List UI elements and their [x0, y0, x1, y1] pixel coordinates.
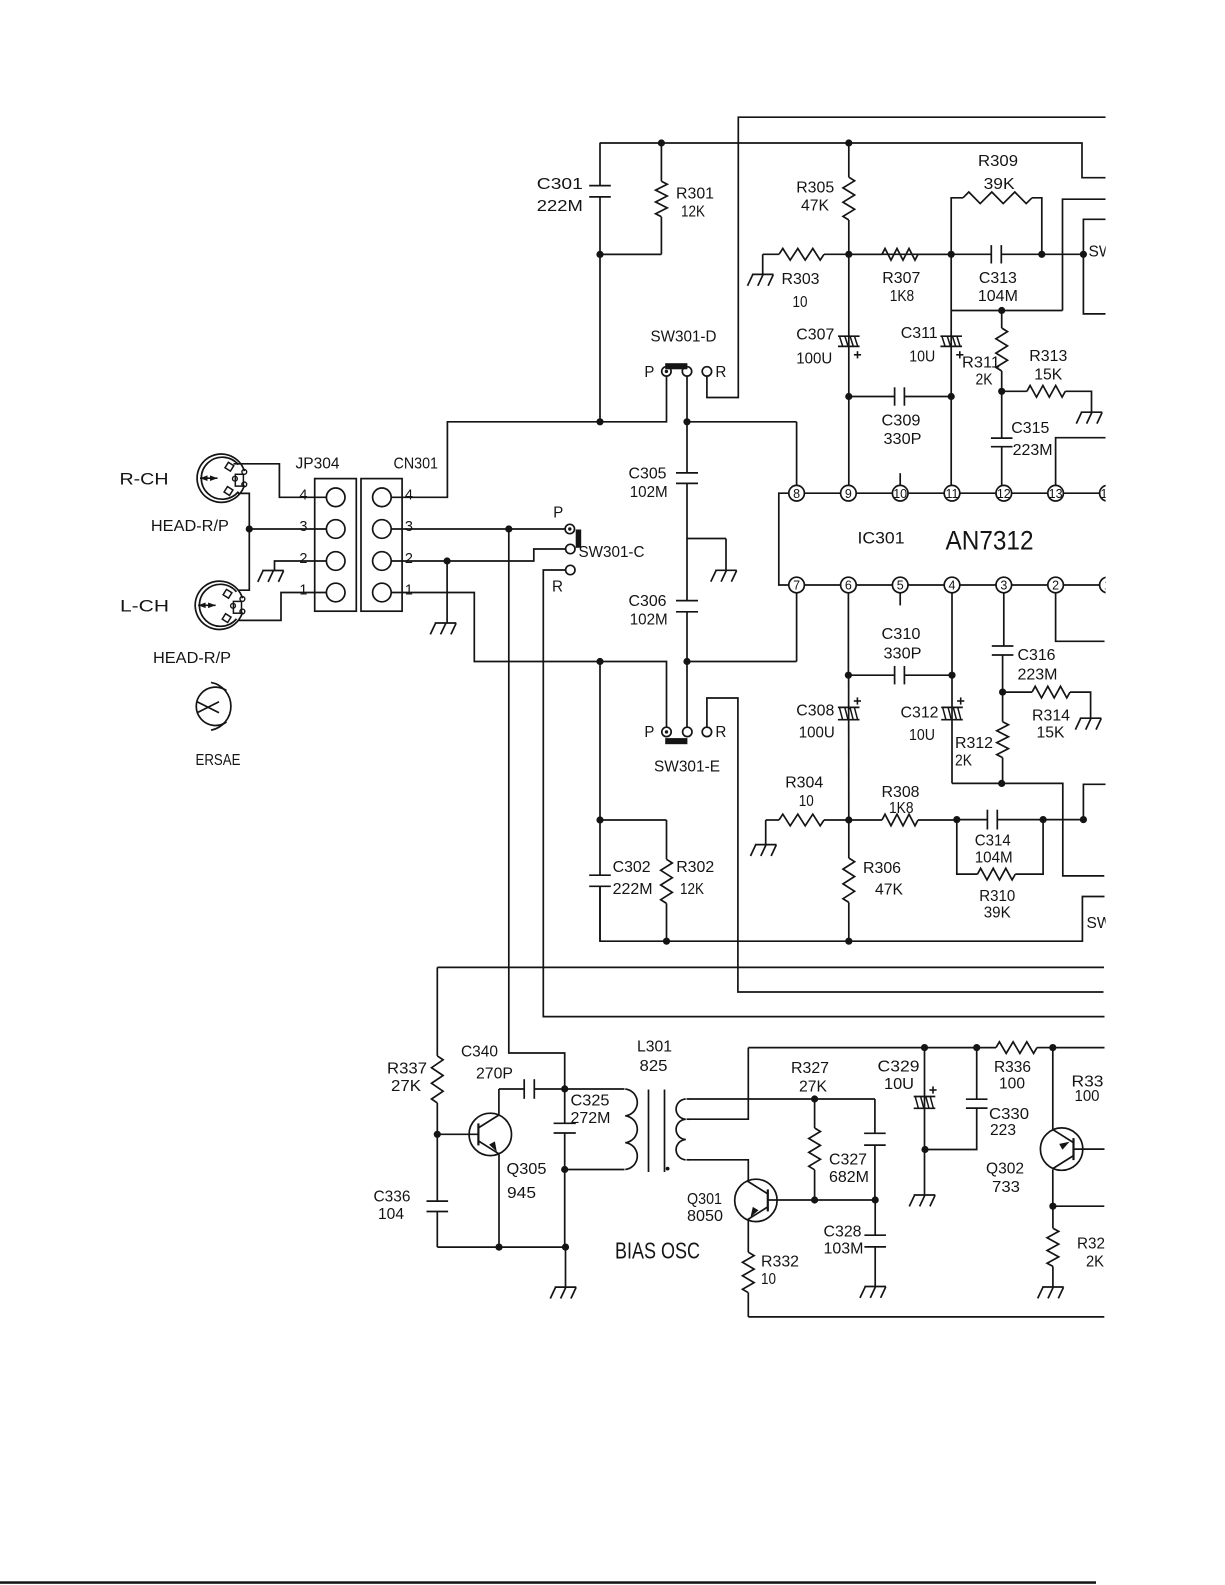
svg-text:P: P [553, 505, 563, 522]
op-amp U1 IC301 AN7312 pin rows [779, 473, 1115, 605]
tape head R-CH HEAD-R/P [197, 454, 247, 502]
svg-text:C316: C316 [1018, 647, 1056, 664]
svg-text:C315: C315 [1011, 420, 1049, 437]
junction dot rail-C325 [562, 1244, 569, 1251]
label R327 [791, 1060, 829, 1096]
resistor R313 [1002, 386, 1092, 413]
svg-text:104: 104 [378, 1206, 404, 1223]
svg-text:15K: 15K [1034, 367, 1062, 384]
svg-text:JP304: JP304 [296, 456, 340, 473]
junction dot C314 left [953, 816, 960, 823]
wire R311 top node [951, 310, 1062, 312]
svg-text:222M: 222M [613, 881, 653, 898]
wire right stub y199 [1063, 199, 1106, 310]
label Q305 [507, 1161, 547, 1202]
label SW301-D R [715, 364, 726, 381]
capacitor C325 [554, 1089, 576, 1247]
label R313 [1029, 348, 1067, 384]
ground JP304-2 [258, 571, 284, 582]
junction dot SW riser [1080, 816, 1087, 823]
wire node to SW [1042, 253, 1084, 255]
label Q302 [986, 1161, 1024, 1197]
svg-text:HEAD-R/P: HEAD-R/P [151, 518, 229, 535]
label SW301-C R [552, 579, 563, 596]
ground bias rail [550, 1287, 576, 1298]
svg-text:1: 1 [405, 583, 413, 599]
label C302 [613, 859, 653, 898]
ground near R313 [1076, 412, 1102, 423]
wire Q305 base [437, 1133, 478, 1135]
label C311 [901, 325, 938, 366]
junction dot wire421 C301 branch [596, 418, 603, 425]
capacitor C310 [848, 666, 952, 684]
svg-text:15K: 15K [1037, 725, 1065, 742]
svg-text:C328: C328 [824, 1224, 862, 1241]
svg-text:223: 223 [990, 1122, 1016, 1139]
svg-text:C313: C313 [979, 270, 1017, 287]
junction dot R302 bottom [663, 938, 670, 945]
label R332 [761, 1254, 799, 1289]
capacitor C311 [940, 254, 963, 396]
label R311 [962, 355, 1000, 389]
label SW301-E [654, 759, 720, 776]
junction dot R306 bottom [845, 938, 852, 945]
resistor R303 [763, 249, 849, 261]
resistor R306 [843, 820, 855, 941]
junction dot C327 bottom [872, 1196, 879, 1203]
svg-text:R: R [552, 579, 563, 596]
junction dot R307 right [948, 251, 955, 258]
svg-text:11: 11 [946, 487, 959, 501]
wire lower bus y941 [600, 886, 1105, 941]
svg-text:BIAS OSC: BIAS OSC [615, 1238, 700, 1264]
svg-text:100U: 100U [799, 725, 835, 742]
svg-text:223M: 223M [1018, 667, 1058, 684]
ground near R304 [751, 820, 777, 856]
label R314 [1032, 708, 1070, 742]
svg-text:2K: 2K [1086, 1254, 1104, 1271]
svg-text:5: 5 [897, 579, 904, 593]
junction dot C301 bottom [596, 251, 603, 258]
svg-text:C301: C301 [537, 176, 583, 193]
svg-text:C311: C311 [901, 325, 938, 342]
junction dot R301 top [658, 139, 665, 146]
svg-text:12: 12 [997, 487, 1011, 501]
switch SW301-D [662, 363, 712, 376]
capacitor C328 [864, 1200, 886, 1287]
svg-text:104M: 104M [975, 850, 1013, 867]
label SW301-C P [553, 505, 563, 522]
svg-text:R312: R312 [955, 735, 993, 752]
svg-text:682M: 682M [829, 1169, 869, 1186]
svg-text:4: 4 [405, 487, 413, 503]
svg-text:R336: R336 [994, 1059, 1031, 1076]
svg-text:R305: R305 [796, 180, 834, 197]
capacitor C306 [676, 539, 698, 728]
label C306 [629, 593, 668, 629]
wire R-CH bottom tab down to L-CH top tab [238, 493, 249, 590]
label C310 [882, 626, 922, 663]
wire bias supply y1047 [748, 1047, 996, 1049]
resistor R304 [766, 814, 849, 826]
wire JP304-2 to ground [275, 561, 327, 570]
capacitor C330 [925, 1048, 988, 1150]
ground CN301-2 [430, 623, 456, 634]
wire bias emitter rail [437, 1155, 565, 1248]
svg-text:10U: 10U [909, 727, 935, 744]
wire Q302 top [1052, 1048, 1054, 1130]
label L-CH [120, 598, 169, 616]
wire right stub y219-y314 [1083, 219, 1105, 314]
svg-text:47K: 47K [801, 198, 829, 215]
label BIAS OSC [615, 1238, 700, 1264]
svg-text:223M: 223M [1013, 442, 1053, 459]
switch SW301-C [565, 524, 581, 574]
capacitor C307 [838, 254, 861, 396]
resistor R336 [996, 1042, 1053, 1054]
svg-text:330P: 330P [884, 431, 922, 448]
wire Q305 collector up [499, 1089, 524, 1115]
capacitor C313 [951, 245, 1042, 263]
wire C301-R301 bottom node [600, 254, 661, 421]
svg-text:SW301-E: SW301-E [654, 759, 720, 776]
wire SW301-C R branch long vertical [543, 570, 1104, 1017]
svg-text:10: 10 [893, 487, 907, 501]
connector JP304 pins [326, 488, 345, 602]
svg-text:P: P [644, 364, 654, 381]
junction dot C309 right [948, 393, 955, 400]
junction dot CN301-2 ground branch [444, 557, 451, 564]
resistor R305 [843, 143, 855, 254]
svg-text:4: 4 [949, 579, 956, 593]
junction dot R312 bottom [998, 780, 1005, 787]
junction dot R305 top [845, 139, 852, 146]
label ERSAE [196, 752, 241, 769]
svg-text:Q301: Q301 [687, 1191, 722, 1208]
capacitor C340 [524, 1079, 565, 1099]
svg-text:13: 13 [1049, 487, 1063, 501]
label C308 [796, 703, 834, 742]
svg-text:2K: 2K [976, 372, 993, 389]
svg-text:3: 3 [1000, 579, 1007, 593]
label C301 [537, 176, 583, 215]
label R32x [1077, 1236, 1105, 1271]
svg-text:R301: R301 [676, 186, 714, 203]
label SW301-D P [644, 364, 654, 381]
svg-text:C336: C336 [374, 1189, 411, 1206]
junction dot wire661 C302 branch [596, 658, 603, 665]
svg-text:100: 100 [999, 1076, 1025, 1093]
transistor Q305 [469, 1113, 511, 1155]
ground C329 [909, 1195, 935, 1206]
svg-text:8: 8 [793, 487, 800, 501]
label C315 [1011, 420, 1052, 459]
label R308 [882, 784, 920, 817]
svg-text:272M: 272M [571, 1110, 611, 1127]
svg-text:R: R [715, 364, 726, 381]
switch SW301-E [662, 727, 712, 744]
svg-text:C309: C309 [882, 413, 921, 430]
svg-text:R327: R327 [791, 1060, 829, 1077]
wire pin13 to right edge [1056, 438, 1106, 486]
svg-text:102M: 102M [630, 612, 668, 629]
junction dot C302 top [596, 816, 603, 823]
resistor R312 [997, 692, 1009, 783]
resistor R332 [743, 1252, 755, 1317]
capacitor C316 [992, 593, 1014, 692]
svg-text:10: 10 [799, 793, 814, 810]
svg-text:945: 945 [507, 1185, 536, 1202]
label HEAD-R/P upper [151, 518, 229, 535]
junction dot SW301-D mid [683, 418, 690, 425]
junction dot head common [246, 525, 253, 532]
svg-text:R337: R337 [387, 1061, 427, 1078]
label C307 [796, 327, 834, 368]
wire pin2 down right [1056, 593, 1105, 642]
capacitor C305 [676, 422, 698, 539]
wire SW301-E mid to pin7 [687, 593, 797, 662]
svg-text:R303: R303 [782, 271, 820, 288]
label SW301-D [651, 329, 717, 346]
svg-text:6: 6 [845, 579, 852, 593]
svg-text:10: 10 [793, 294, 808, 311]
label C313 [978, 270, 1018, 305]
label JP304 [296, 456, 340, 473]
label C305 [629, 466, 668, 502]
junction dot C329 top [921, 1044, 928, 1051]
junction dot CN301-3 branch [505, 525, 512, 532]
wire R-CH top tab to JP304-4 [234, 464, 327, 498]
label R33x [1072, 1074, 1104, 1106]
wire R336 to right edge [1053, 1047, 1105, 1049]
svg-text:R309: R309 [978, 153, 1018, 170]
svg-text:103M: 103M [824, 1241, 864, 1258]
wire top-right rail to SW301-D R terminal [707, 117, 1106, 397]
svg-text:SW301-C: SW301-C [579, 544, 645, 561]
wire L301 top tap to C327 [689, 1099, 875, 1133]
wire bias bottom rail [748, 1316, 1104, 1318]
svg-text:2K: 2K [955, 753, 972, 770]
junction dot R327 top [811, 1095, 818, 1102]
labels CN301 pin numbers 4 3 2 1 [405, 487, 413, 598]
transistor Q301 [735, 1179, 777, 1221]
wire CN301-2 to SW301-C mid [391, 549, 565, 561]
capacitor C314 [957, 810, 1043, 830]
label C327 [829, 1152, 869, 1187]
wire head common to JP304-3 [249, 528, 326, 530]
ground mid C305-C306 [711, 570, 737, 581]
label R303 [782, 271, 820, 311]
label C316 [1018, 647, 1058, 684]
svg-text:7: 7 [793, 579, 800, 593]
junction dot Q302 emitter node [1049, 1203, 1056, 1210]
wire emitter node right [1053, 1205, 1104, 1207]
junction dot C313 right [1038, 251, 1045, 258]
label Q301 [687, 1191, 723, 1225]
wire pin9 riser [848, 397, 850, 486]
label R336 [994, 1059, 1031, 1093]
svg-text:39K: 39K [984, 905, 1011, 922]
wire lower bus y967 [437, 966, 1104, 968]
resistor R307 [849, 249, 951, 261]
svg-text:SW301-D: SW301-D [651, 329, 717, 346]
wire C314 to SW riser [1043, 784, 1105, 819]
bottom border line [0, 1581, 1096, 1584]
label R301 [676, 186, 714, 221]
label R304 [785, 775, 823, 811]
svg-text:C314: C314 [975, 833, 1011, 850]
label R305 [796, 180, 834, 215]
svg-text:1K8: 1K8 [890, 288, 915, 305]
wire C302 top node [600, 662, 667, 821]
svg-text:27K: 27K [391, 1078, 421, 1095]
connector JP304 box [315, 479, 357, 612]
svg-text:C325: C325 [571, 1093, 610, 1110]
junction dot R311 top [998, 307, 1005, 314]
svg-text:4: 4 [299, 487, 307, 503]
white mask right edge (scan cut) [1106, 0, 1225, 1575]
wire CN301-3 to SW301-C P [391, 528, 565, 530]
wire rail ground drop [565, 1247, 567, 1287]
label C325 [571, 1093, 611, 1128]
junction dot C330 top [973, 1044, 980, 1051]
svg-text:1K8: 1K8 [889, 800, 914, 817]
svg-text:AN7312: AN7312 [946, 526, 1034, 556]
label CN301 [394, 456, 439, 473]
label R306 [863, 860, 903, 899]
wire SW301-C P branch long vertical [509, 529, 565, 1089]
ground near R314 [1075, 718, 1101, 729]
svg-text:100U: 100U [796, 351, 832, 368]
label C329 [878, 1059, 920, 1094]
wire main node y254 [849, 253, 951, 255]
transistor Q302 [1040, 1128, 1082, 1170]
junction dot Q302 collector node [1049, 1044, 1056, 1051]
svg-text:C340: C340 [461, 1044, 498, 1061]
connector CN301 pins [373, 488, 392, 602]
junction dot SW node [1080, 251, 1087, 258]
svg-text:R32: R32 [1077, 1236, 1105, 1253]
resistor R310 [957, 820, 1043, 880]
junction dot Q305 emitter [495, 1244, 502, 1251]
svg-text:R310: R310 [979, 888, 1015, 905]
resistor R301 [656, 143, 668, 254]
svg-text:2: 2 [1052, 579, 1059, 593]
label C309 [882, 413, 922, 449]
svg-text:9: 9 [845, 487, 852, 501]
junction dot C316 bottom [999, 689, 1006, 696]
svg-text:R332: R332 [761, 1254, 799, 1271]
label C312 [901, 705, 939, 745]
junction dot C340 right [561, 1085, 568, 1092]
svg-text:1: 1 [299, 583, 307, 599]
svg-text:CN301: CN301 [394, 456, 439, 473]
svg-text:10: 10 [761, 1271, 776, 1288]
svg-text:R314: R314 [1032, 708, 1070, 725]
svg-text:222M: 222M [537, 198, 583, 215]
resistor R311 [996, 311, 1008, 392]
resistor R309 [951, 192, 1042, 254]
wire Q302 bottom [1052, 1170, 1054, 1207]
wire pin11 riser [950, 397, 952, 486]
resistor R302 [661, 820, 673, 941]
svg-text:R: R [715, 724, 726, 741]
svg-text:12K: 12K [680, 881, 704, 898]
svg-text:C302: C302 [613, 859, 651, 876]
label SW301-E R [715, 724, 726, 741]
svg-text:R302: R302 [676, 859, 714, 876]
wire L-CH bottom tab to JP304-1 [238, 593, 326, 621]
resistor R308 [849, 814, 957, 826]
svg-text:102M: 102M [630, 484, 668, 501]
junction dot L301 left bottom tap [561, 1166, 568, 1173]
svg-text:C305: C305 [629, 466, 667, 483]
ground C328 [860, 1287, 886, 1298]
label R307 [882, 270, 920, 305]
svg-text:825: 825 [640, 1058, 668, 1075]
svg-text:Q305: Q305 [507, 1161, 547, 1178]
junction dot SW301-E mid [683, 658, 690, 665]
junction dot C310 left [845, 672, 852, 679]
junction dot R303-R305 [845, 251, 852, 258]
svg-text:10U: 10U [884, 1076, 914, 1093]
svg-text:C329: C329 [878, 1059, 920, 1076]
tape head L-CH HEAD-R/P [195, 581, 245, 629]
svg-text:R313: R313 [1029, 348, 1067, 365]
junction dot R327 bottom [811, 1196, 818, 1203]
label R309 [978, 153, 1018, 193]
capacitor C315 [991, 391, 1013, 485]
connector CN301 box [361, 479, 402, 612]
svg-text:R311: R311 [962, 355, 1000, 372]
svg-text:R308: R308 [882, 784, 920, 801]
svg-text:C310: C310 [882, 626, 921, 643]
label R302 [676, 859, 714, 898]
capacitor C309 [849, 387, 951, 405]
capacitor C329 [914, 1048, 937, 1195]
svg-text:C327: C327 [829, 1152, 867, 1169]
label C330 [989, 1106, 1029, 1139]
svg-text:2: 2 [405, 551, 413, 567]
wire CN301-4 to SW301-D P [391, 376, 666, 497]
wire L301 bottom tap to Q301 collector [689, 1160, 749, 1182]
label HEAD-R/P lower [153, 650, 231, 667]
svg-text:C306: C306 [629, 593, 667, 610]
svg-text:47K: 47K [875, 882, 903, 899]
erase head ERSAE [196, 682, 231, 730]
svg-text:12K: 12K [681, 204, 705, 221]
svg-text:C312: C312 [901, 705, 939, 722]
labels JP304 pin numbers 4 3 2 1 [299, 487, 307, 598]
svg-text:R307: R307 [882, 270, 920, 287]
capacitor C302 [589, 820, 611, 941]
junction dot C310 right [948, 672, 955, 679]
svg-text:104M: 104M [978, 288, 1018, 305]
svg-text:3: 3 [405, 519, 413, 535]
junction dot R304-R306 [845, 816, 852, 823]
wire CN301-1 down to bus [391, 593, 666, 728]
wire C305-C306 mid to ground [687, 539, 726, 571]
label R337 [387, 1061, 427, 1096]
junction dot C314 right [1040, 816, 1047, 823]
label SW301-C [579, 544, 645, 561]
capacitor C308 [838, 593, 861, 820]
inductor L301 transformer [565, 1089, 690, 1172]
junction dot R311 bottom [998, 388, 1005, 395]
wire top supply line [600, 143, 1106, 178]
capacitor C336 [427, 1134, 449, 1247]
svg-text:39K: 39K [984, 176, 1015, 193]
